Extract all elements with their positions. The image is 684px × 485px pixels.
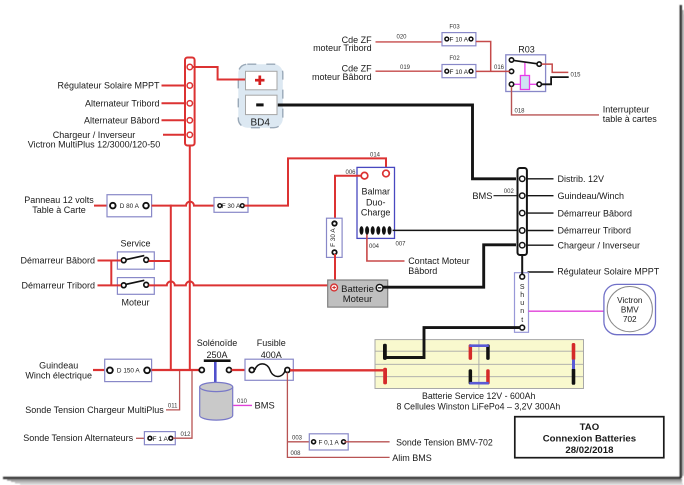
svg-text:Panneau 12 volts: Panneau 12 volts xyxy=(24,195,94,205)
svg-text:Contact Moteur: Contact Moteur xyxy=(408,256,470,266)
svg-text:Victron: Victron xyxy=(617,296,643,305)
wire label to F1A xyxy=(136,437,148,439)
svg-text:Démarreur Bâbord: Démarreur Bâbord xyxy=(20,256,95,266)
fuse F 30 A (horizontal) xyxy=(214,198,248,213)
distribution block BD4 xyxy=(238,64,282,128)
solenoid coil cylinder xyxy=(200,382,233,420)
second red vertical from D80A junction xyxy=(170,205,172,371)
svg-text:250A: 250A xyxy=(206,350,227,360)
switch Moteur xyxy=(117,278,154,295)
svg-text:Bâbord: Bâbord xyxy=(408,266,437,276)
svg-text:BMV: BMV xyxy=(621,305,639,314)
svg-text:F 0,1 A: F 0,1 A xyxy=(318,439,339,446)
wire xyxy=(162,85,187,87)
fuse F03 F 10 A xyxy=(442,33,476,46)
svg-text:S: S xyxy=(520,284,525,291)
wire BD4 minus to black busbar (thick black) xyxy=(278,105,516,179)
wire + label Démarreur Tribord (right) xyxy=(527,230,554,232)
svg-text:Interrupteur: Interrupteur xyxy=(603,105,650,115)
svg-text:400A: 400A xyxy=(261,350,282,360)
fuse Fusible 400A xyxy=(245,359,293,380)
wire Balmar connector to black busbar xyxy=(393,229,518,231)
switch Service xyxy=(117,252,154,269)
svg-text:8 Cellules Winston LiFePo4 – 3: 8 Cellules Winston LiFePo4 – 3,2V 300Ah xyxy=(396,401,560,411)
wire panneau to D80A xyxy=(94,205,108,207)
wire Moteur switch to Batterie Moteur + (hops over verticals) xyxy=(149,281,331,285)
wire Démarreur Bâbord to switch xyxy=(98,260,122,262)
breaker D 150 A xyxy=(105,359,152,381)
svg-text:Sonde Tension BMV-702: Sonde Tension BMV-702 xyxy=(396,437,493,447)
svg-text:Alim BMS: Alim BMS xyxy=(392,453,432,463)
svg-text:020: 020 xyxy=(396,34,407,40)
busbar BB1 (red charge bus) xyxy=(185,58,195,146)
battery Batterie Moteur xyxy=(328,280,388,307)
wire fusible 400A down to sondes xyxy=(287,373,389,458)
wire relay common out (black) to 015 xyxy=(542,77,569,84)
svg-text:Sonde Tension Chargeur MultiPl: Sonde Tension Chargeur MultiPlus xyxy=(25,405,164,415)
svg-text:Distrib. 12V: Distrib. 12V xyxy=(558,174,605,184)
wire + label Chargeur / Inverseur (right) xyxy=(527,244,554,246)
wire cylinder to BMS (magenta) xyxy=(233,404,252,406)
svg-text:h: h xyxy=(520,292,524,299)
svg-text:Guindeau: Guindeau xyxy=(39,361,78,371)
fuse F 0,1 A xyxy=(309,434,348,450)
svg-text:Démarreur Tribord: Démarreur Tribord xyxy=(558,226,632,236)
svg-text:Régulateur Solaire MPPT: Régulateur Solaire MPPT xyxy=(557,267,660,277)
wire Batterie Moteur - to black busbar xyxy=(383,245,516,287)
svg-text:Duo-: Duo- xyxy=(366,197,386,207)
fuse F 1 A xyxy=(144,432,175,445)
wire xyxy=(162,102,187,104)
svg-text:Régulateur Solaire MPPT: Régulateur Solaire MPPT xyxy=(57,81,160,91)
svg-text:014: 014 xyxy=(370,152,381,158)
wire 019 xyxy=(376,70,443,72)
wire + label Régulateur Solaire MPPT (right) xyxy=(528,271,554,273)
svg-text:t: t xyxy=(521,317,523,324)
wire Balmar pin to Contact Moteur Bâbord xyxy=(367,235,405,262)
wire Démarreur Tribord to switch xyxy=(98,284,122,286)
svg-text:D 150 A: D 150 A xyxy=(117,368,140,375)
svg-text:Winch électrique: Winch électrique xyxy=(25,371,92,381)
svg-text:Charge: Charge xyxy=(361,208,391,218)
svg-text:Démarreur Bâbord: Démarreur Bâbord xyxy=(558,208,633,218)
svg-text:010: 010 xyxy=(237,399,248,405)
main red bus vertical (from BB1 down) xyxy=(189,145,191,371)
svg-text:012: 012 xyxy=(180,432,191,438)
svg-text:Guindeau/Winch: Guindeau/Winch xyxy=(558,191,625,201)
wire fusible to battery bank xyxy=(290,369,385,371)
wire 011 Sonde Tension Chargeur MultiPlus xyxy=(166,371,180,410)
battery cell bars bottom row xyxy=(383,368,387,385)
wire shunt to battery bank (thick black) xyxy=(386,328,520,358)
svg-text:019: 019 xyxy=(400,65,411,71)
svg-text:702: 702 xyxy=(623,315,637,324)
svg-text:Chargeur / Inverseur: Chargeur / Inverseur xyxy=(53,130,136,140)
svg-text:moteur Tribord: moteur Tribord xyxy=(313,43,372,53)
svg-text:BMS: BMS xyxy=(255,401,275,411)
svg-text:F02: F02 xyxy=(449,56,460,62)
wire shunt to BMV (magenta) xyxy=(529,310,605,312)
svg-text:Sonde Tension Alternateurs: Sonde Tension Alternateurs xyxy=(23,433,133,443)
shunt xyxy=(515,273,529,333)
svg-text:n: n xyxy=(520,308,524,315)
svg-text:R03: R03 xyxy=(518,45,535,55)
svg-text:Solénoïde: Solénoïde xyxy=(197,338,238,348)
wire fuse to Batterie Moteur + xyxy=(334,254,336,282)
svg-text:BMS: BMS xyxy=(472,191,492,201)
svg-text:TAO: TAO xyxy=(580,422,600,433)
svg-text:Table à Carte: Table à Carte xyxy=(32,205,86,215)
wire + label Démarreur Bâbord (right) xyxy=(527,212,554,214)
svg-text:007: 007 xyxy=(395,242,406,248)
wire solenoid to fusible xyxy=(232,369,253,371)
svg-text:Fusible: Fusible xyxy=(257,338,286,348)
svg-text:Victron MultiPlus 12/3000/120-: Victron MultiPlus 12/3000/120-50 xyxy=(28,140,160,150)
solenoid contacts xyxy=(199,359,231,386)
wire relay coil to interrupteur xyxy=(512,87,600,115)
wire busbar to BD4 + xyxy=(193,67,246,80)
svg-text:28/02/2018: 28/02/2018 xyxy=(565,445,614,456)
svg-text:BD4: BD4 xyxy=(250,117,270,128)
busbar BB2 (black distribution bus) xyxy=(518,168,527,255)
svg-text:F 30 A: F 30 A xyxy=(330,228,337,247)
svg-text:F 10 A: F 10 A xyxy=(450,37,469,44)
wire 012 F1A up to guindeau wire xyxy=(173,371,192,438)
wire xyxy=(162,119,187,121)
wire + label Guindeau/Winch xyxy=(527,195,554,197)
svg-text:018: 018 xyxy=(515,108,526,114)
svg-text:Moteur: Moteur xyxy=(121,298,149,308)
svg-text:008: 008 xyxy=(290,451,301,457)
wire D150A to solenoid xyxy=(152,369,200,371)
svg-text:Balmar: Balmar xyxy=(361,187,390,197)
svg-text:Démarreur Tribord: Démarreur Tribord xyxy=(21,281,95,291)
battery bank Batterie Service xyxy=(375,340,584,389)
svg-text:F 10 A: F 10 A xyxy=(450,69,469,76)
svg-text:Chargeur / Inverseur: Chargeur / Inverseur xyxy=(558,240,641,250)
svg-text:moteur Bâbord: moteur Bâbord xyxy=(312,72,372,82)
svg-text:003: 003 xyxy=(292,435,303,441)
svg-text:table à cartes: table à cartes xyxy=(603,114,658,124)
wire 020 xyxy=(376,41,443,43)
svg-text:F 30 A: F 30 A xyxy=(222,203,241,210)
svg-text:011: 011 xyxy=(168,404,178,410)
monitor Victron BMV 702 xyxy=(604,284,656,334)
breaker D 80 A xyxy=(107,195,152,217)
wire Service switch to house bus xyxy=(149,260,172,262)
svg-text:004: 004 xyxy=(369,244,380,250)
wire Balmar left terminal to fuse F30A vertical xyxy=(335,176,362,219)
svg-text:Moteur: Moteur xyxy=(343,294,373,305)
relay R03 xyxy=(506,55,546,92)
wire D80A to F30A with hop over main bus xyxy=(152,202,215,206)
wire xyxy=(163,134,186,136)
svg-text:015: 015 xyxy=(571,73,582,79)
wire F03 out to junction xyxy=(476,42,491,72)
fuse F 30 A (vertical) xyxy=(327,218,343,257)
wire 003 stub to F0,1A xyxy=(287,441,311,443)
svg-text:016: 016 xyxy=(494,65,505,71)
wire relay NO out (red) to 015 xyxy=(542,64,569,72)
svg-text:Alternateur Tribord: Alternateur Tribord xyxy=(85,99,160,109)
battery cell bars top row xyxy=(383,344,387,360)
svg-text:Batterie Service 12V - 600Ah: Batterie Service 12V - 600Ah xyxy=(422,391,536,401)
title block TAO xyxy=(515,417,664,458)
blue cell links xyxy=(469,344,489,347)
svg-text:D 80 A: D 80 A xyxy=(120,203,140,210)
svg-text:002: 002 xyxy=(504,189,515,195)
svg-text:Service: Service xyxy=(120,239,150,249)
svg-text:Alternateur Bâbord: Alternateur Bâbord xyxy=(84,116,160,126)
wire bridge between starter wires xyxy=(110,261,112,286)
charger Balmar Duo-Charge xyxy=(357,167,395,238)
wire 016 to relay xyxy=(476,70,510,72)
svg-text:F 1 A: F 1 A xyxy=(152,436,168,443)
svg-text:Connexion Batteries: Connexion Batteries xyxy=(543,433,636,444)
wire F0,1A to label xyxy=(345,441,390,443)
wire to D150A xyxy=(93,369,106,371)
fuse F02 F 10 A xyxy=(442,65,476,78)
wire + label Distrib. 12V xyxy=(527,178,554,180)
wire busbar to shunt xyxy=(521,255,523,275)
wire F30A up and over to Balmar right terminal xyxy=(245,158,387,205)
svg-text:F03: F03 xyxy=(449,24,460,30)
svg-text:u: u xyxy=(520,300,524,307)
